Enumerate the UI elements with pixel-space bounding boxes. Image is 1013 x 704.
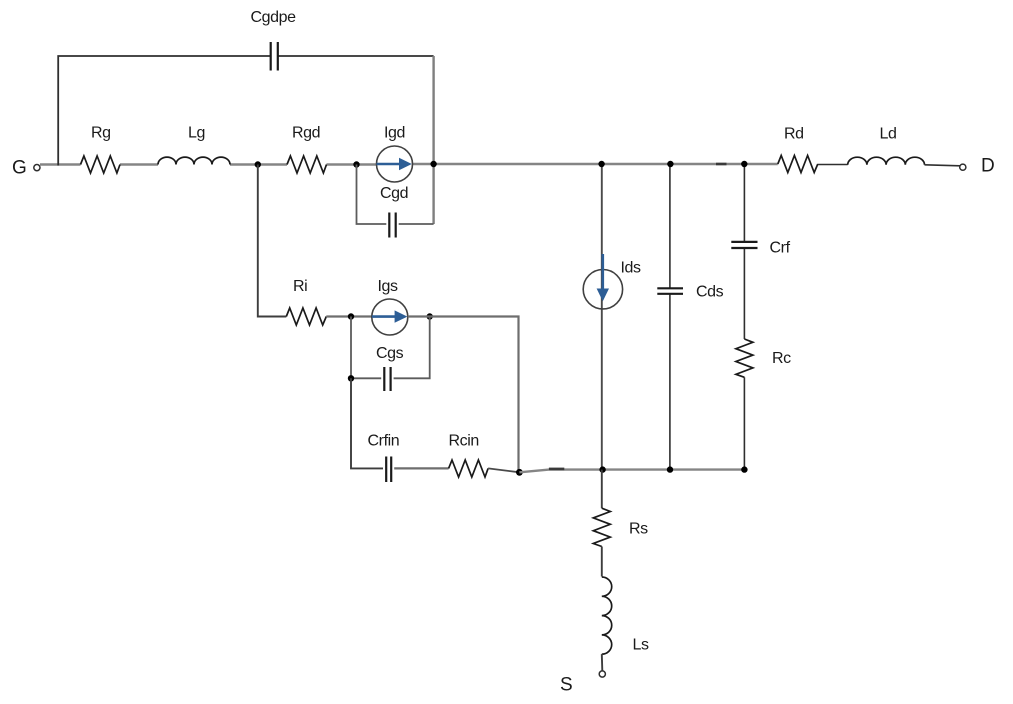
node junction bottom-left [516,469,523,476]
resistor Rcin [449,460,489,477]
wire right vertical of Cgdpe loop down to main rail and Cgd loop [432,56,434,224]
svg-text:Rgd: Rgd [292,125,320,142]
svg-text:Rcin: Rcin [449,433,479,450]
svg-text:Ld: Ld [880,126,897,143]
wire Ls to S terminal [601,654,604,671]
svg-text:Ids: Ids [621,260,642,277]
resistor Rs [593,508,610,546]
capacitor Cgd [389,213,395,238]
capacitor Cgs [384,367,390,391]
inductor Ld [848,157,925,165]
capacitor Cgdpe [271,42,278,71]
terminal D [960,164,966,170]
wire bottom node down to Rs [601,470,603,509]
capacitor Crf [731,242,757,248]
svg-text:Igs: Igs [378,278,399,295]
svg-text:Lg: Lg [188,125,205,142]
svg-text:G: G [12,158,27,179]
node junction bottom rail below Rc [741,466,747,472]
resistor Rc [736,339,753,377]
svg-text:Rc: Rc [772,350,791,367]
wire Rs to Ls [601,547,603,577]
node junction Igs left [348,313,354,319]
wire Rcin to bottom-left node (slanted) [488,468,519,472]
svg-text:Crfin: Crfin [368,433,400,450]
node junction on rail (Ri branch) [255,161,261,167]
svg-text:Cgs: Cgs [376,345,404,362]
node junction rail above Crf [741,161,747,167]
wire Crf Rc vertical [743,164,745,470]
wire Ri branch vertical from rail [258,165,287,317]
svg-text:Rd: Rd [784,126,804,143]
wire bottom rail [519,470,744,473]
wire Crfin to Rcin [394,467,448,469]
node junction rail above Ids [598,161,604,167]
inductor Ls [602,577,612,654]
wire Igs right to corner and down to bottom rail [408,317,519,472]
terminal G [34,165,40,171]
svg-text:D: D [981,156,995,177]
resistor Rgd [287,156,327,173]
wire main rail G to D [40,163,778,166]
capacitor Cds [657,288,683,294]
wire Cgd loop [357,165,434,225]
node junction rail above Cds [667,161,673,167]
wire Ri to Igs [326,315,372,317]
svg-text:Ls: Ls [633,637,649,654]
svg-text:Cgd: Cgd [380,185,408,202]
node junction bottom rail below Cds [667,466,673,472]
svg-text:Cgdpe: Cgdpe [251,9,297,26]
current source Ids [583,254,622,309]
svg-text:Ri: Ri [293,278,307,295]
svg-text:Rs: Rs [629,521,648,538]
resistor Rd [778,156,818,173]
wire dash overlap on main rail [716,163,727,166]
wire Cgdpe top loop [58,56,433,166]
wire Cgs node down to Crfin branch [351,378,383,468]
current source Igd [377,146,413,182]
svg-text:Igd: Igd [384,125,405,142]
wire Ids vertical (rail to bottom rail) [601,164,603,470]
svg-text:S: S [560,675,573,696]
wire Cgs loop [351,317,430,379]
resistor Rg [81,156,121,173]
capacitor Crfin [386,457,391,483]
wire Cds vertical [669,164,671,470]
node junction Igs right [427,313,433,319]
wire Ld to D terminal [925,165,960,166]
terminal S [599,671,605,677]
node junction on rail (Cgdpe right / Cgd right) [430,161,436,167]
wire dash overlap on bottom rail [549,468,564,471]
node junction bottom rail below Ids [599,466,605,472]
node junction Cgs left [348,375,354,381]
svg-text:Crf: Crf [770,240,791,257]
node junction on rail (Cgd left) [353,161,359,167]
svg-text:Rg: Rg [91,125,111,142]
resistor Ri [286,308,326,325]
inductor Lg [158,157,230,164]
current source Igs [372,299,408,335]
svg-text:Cds: Cds [696,284,724,301]
wire Rd to Ld [818,164,848,166]
